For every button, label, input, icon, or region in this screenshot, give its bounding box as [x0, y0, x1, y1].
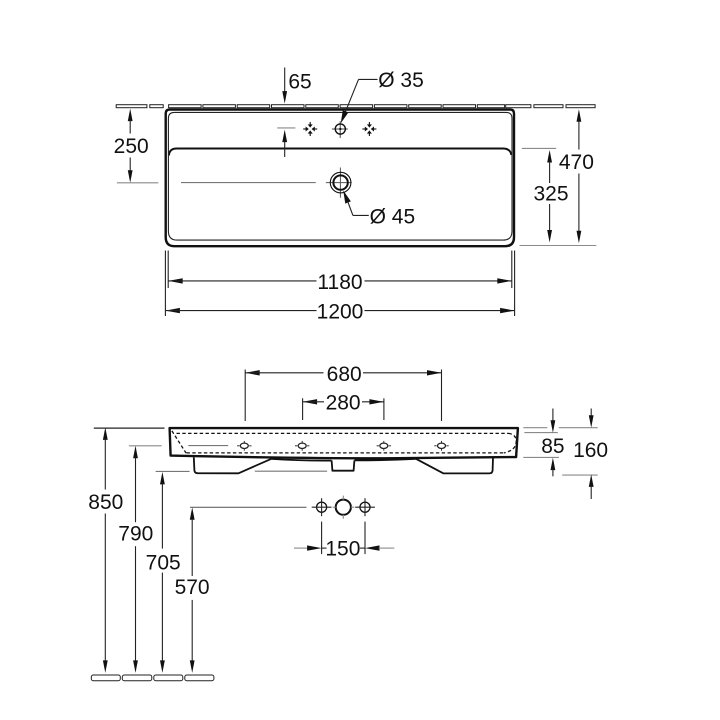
svg-text:325: 325 — [533, 183, 568, 206]
left foot — [194, 457, 271, 473]
dimension 705 — [146, 471, 190, 673]
dimension 850 — [88, 427, 164, 673]
right foot — [416, 458, 493, 474]
optional tap hole cross right — [362, 122, 376, 136]
svg-text:Ø 35: Ø 35 — [378, 69, 424, 92]
svg-text:470: 470 — [559, 151, 594, 174]
drain hole (plan) — [326, 168, 352, 198]
supply connection right — [355, 498, 375, 516]
dimension 160 — [562, 409, 608, 500]
extension lines 1180/1200 — [165, 251, 514, 317]
dimension 65 — [277, 68, 311, 158]
svg-text:65: 65 — [288, 70, 311, 93]
wall hatch band — [116, 105, 595, 108]
label O35 with leader — [341, 69, 424, 123]
svg-text:570: 570 — [175, 576, 210, 599]
basin inner back rim line — [169, 149, 511, 156]
hidden under line — [255, 470, 327, 472]
overflow slot line — [188, 445, 228, 447]
svg-text:280: 280 — [326, 391, 361, 414]
dimension 1200 — [165, 301, 514, 324]
fixing hole tick marks — [237, 441, 449, 451]
dimension 280 — [303, 391, 384, 420]
dimension 1180 — [168, 271, 512, 294]
hidden rim dashed left slant — [172, 431, 186, 453]
svg-text:705: 705 — [146, 551, 181, 574]
label O45 with leader — [343, 190, 415, 228]
bowl bottom feature line — [181, 182, 316, 184]
drain connection centre — [333, 496, 355, 519]
bowl underside right curve — [354, 459, 416, 461]
hidden rim dashed top — [177, 432, 509, 434]
supply connection left — [312, 498, 332, 516]
svg-text:150: 150 — [325, 538, 360, 561]
svg-text:Ø 45: Ø 45 — [370, 206, 416, 229]
dimension 790 — [118, 446, 161, 673]
hidden rim dashed bottom — [187, 452, 504, 454]
svg-text:85: 85 — [541, 435, 564, 458]
basin outer outline (plan) — [166, 110, 514, 247]
dimension 250 — [114, 109, 159, 183]
tap hole O35 — [332, 121, 348, 138]
floor tiles — [91, 675, 214, 681]
dimension 680 — [245, 363, 441, 421]
svg-text:790: 790 — [118, 523, 153, 546]
dimension 470 — [520, 109, 597, 245]
svg-text:160: 160 — [573, 439, 608, 462]
svg-text:850: 850 — [88, 491, 123, 514]
dimension 325 — [522, 148, 569, 242]
svg-text:250: 250 — [114, 135, 149, 158]
basin outline (front) — [170, 428, 518, 458]
siphon cover notch — [332, 460, 355, 470]
fixing hole ellipses — [240, 443, 445, 448]
basin inner outline (inset) — [168, 112, 512, 240]
dimension 570 — [175, 507, 307, 673]
optional tap hole cross left — [303, 122, 317, 136]
svg-text:1200: 1200 — [317, 301, 364, 324]
dimension 150 — [294, 522, 394, 561]
dimension 85 — [523, 409, 597, 477]
bowl underside left curve — [271, 459, 332, 461]
hidden rim dashed right curve — [504, 433, 516, 453]
svg-text:680: 680 — [327, 363, 362, 386]
svg-text:1180: 1180 — [317, 271, 362, 294]
